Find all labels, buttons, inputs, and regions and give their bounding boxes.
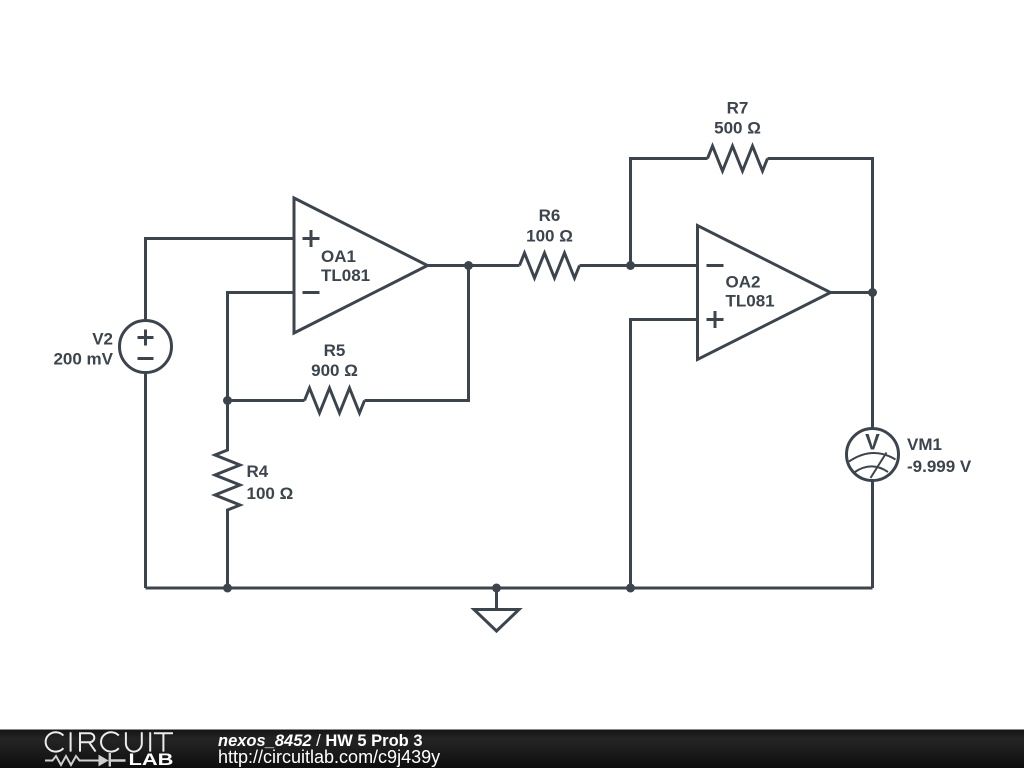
svg-text:VM1: VM1 xyxy=(907,435,942,454)
wire xyxy=(580,264,631,267)
svg-text:TL081: TL081 xyxy=(726,292,775,311)
junction xyxy=(492,584,501,593)
wire xyxy=(146,587,873,590)
junction xyxy=(223,396,232,405)
wire xyxy=(146,239,295,321)
svg-text:OA2: OA2 xyxy=(726,273,761,292)
footer bar xyxy=(0,730,1024,768)
voltage source V2 xyxy=(53,321,171,373)
wire xyxy=(228,293,295,401)
url text xyxy=(218,747,440,767)
svg-text:-9.999 V: -9.999 V xyxy=(907,457,972,476)
resistor R6 xyxy=(520,206,580,278)
svg-text:R6: R6 xyxy=(539,206,561,225)
resistor R4 xyxy=(215,401,293,589)
svg-text:100 Ω: 100 Ω xyxy=(247,484,294,503)
wire xyxy=(631,320,698,589)
resistor R7 xyxy=(708,99,768,172)
wire xyxy=(871,293,874,429)
CircuitLab logo xyxy=(45,732,174,768)
svg-text:LAB: LAB xyxy=(129,751,174,768)
title text xyxy=(218,732,423,750)
junction xyxy=(626,584,635,593)
svg-text:900 Ω: 900 Ω xyxy=(311,361,358,380)
wire xyxy=(365,266,469,401)
ground xyxy=(474,610,519,632)
svg-text:V: V xyxy=(865,430,880,455)
resistor R5 xyxy=(305,341,365,413)
wire xyxy=(495,588,498,610)
svg-text:200 mV: 200 mV xyxy=(53,350,113,369)
svg-text:http://circuitlab.com/c9j439y: http://circuitlab.com/c9j439y xyxy=(218,747,440,767)
wire xyxy=(469,264,520,267)
junction xyxy=(223,584,232,593)
svg-text:100 Ω: 100 Ω xyxy=(526,227,573,246)
svg-text:R7: R7 xyxy=(727,99,749,118)
wire xyxy=(768,159,873,293)
wire xyxy=(631,264,698,267)
wire xyxy=(428,264,469,267)
voltmeter VM1 xyxy=(847,429,972,481)
wire xyxy=(228,399,305,402)
wire xyxy=(144,373,147,589)
svg-text:V2: V2 xyxy=(92,330,113,349)
svg-text:R5: R5 xyxy=(324,341,346,360)
wire xyxy=(831,291,873,294)
svg-text:TL081: TL081 xyxy=(321,266,370,285)
junction xyxy=(464,261,473,270)
wire xyxy=(631,159,708,266)
op-amp OA2 xyxy=(698,226,831,360)
svg-text:500 Ω: 500 Ω xyxy=(714,119,761,138)
op-amp OA1 xyxy=(294,198,428,333)
svg-text:OA1: OA1 xyxy=(321,247,356,266)
svg-text:R4: R4 xyxy=(247,462,269,481)
junction xyxy=(626,261,635,270)
wire xyxy=(871,481,874,589)
junction xyxy=(868,288,877,297)
